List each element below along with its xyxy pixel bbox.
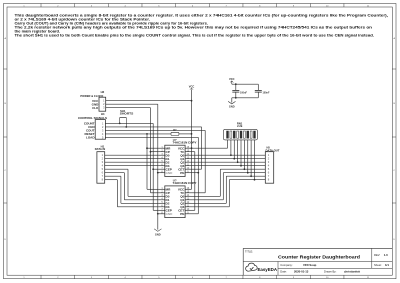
wire LOAD vertical to PE pins xyxy=(197,137,199,213)
wire to U1 CP xyxy=(151,151,159,153)
wire CEN (H4 pin2) xyxy=(105,126,201,128)
wire VCC vertical xyxy=(191,101,193,190)
wire COUNT vertical to CEP pins xyxy=(152,123,154,210)
title block xyxy=(243,247,392,249)
svg-text:VCC: VCC xyxy=(229,77,235,81)
svg-text:VCC: VCC xyxy=(189,84,195,88)
wire xyxy=(147,188,158,190)
wire COUNT (H4 pin1) xyxy=(105,122,153,124)
svg-text:TITLE:: TITLE: xyxy=(245,250,253,254)
resistor R? pull-up xyxy=(171,132,179,135)
wires U2 Q0-Q3 risers to H5 xyxy=(192,195,221,197)
svg-text:74HC161N COPY: 74HC161N COPY xyxy=(173,141,197,145)
wire to U2 CP xyxy=(151,192,159,194)
svg-text:VFD Soup: VFD Soup xyxy=(303,263,317,267)
wire VCC riser xyxy=(191,90,193,101)
wires U1 Q0-Q3 to H5 xyxy=(192,154,266,156)
capacitor C2 100nF xyxy=(257,84,259,90)
RN1 common pin to VCC rail xyxy=(227,140,229,148)
wire COUT vertical to U2 TC xyxy=(204,130,206,192)
svg-text:Drawn By:: Drawn By: xyxy=(324,270,337,274)
svg-text:SHORTS: SHORTS xyxy=(120,112,134,116)
wire CLK from H2 xyxy=(106,107,151,109)
svg-text:GND: GND xyxy=(155,232,161,236)
svg-text:R?: R? xyxy=(173,129,177,132)
wire xyxy=(153,209,158,211)
svg-text:100nF: 100nF xyxy=(263,91,270,94)
svg-text:EasyEDA: EasyEDA xyxy=(258,267,278,272)
svg-text:Counter Register Daughterboard: Counter Register Daughterboard xyxy=(278,255,360,260)
svg-text:REV:: REV: xyxy=(374,253,380,257)
svg-text:christianlott: christianlott xyxy=(344,270,360,274)
wire LOAD (H4 pin5) xyxy=(105,136,198,138)
svg-text:LOAD: LOAD xyxy=(86,136,95,140)
wire xyxy=(192,168,202,170)
wire CEN vertical to U1 CET xyxy=(201,127,203,169)
svg-text:GND: GND xyxy=(166,212,174,216)
svg-text:The short SH1 is used to tie b: The short SH1 is used to tie both Count … xyxy=(15,32,375,37)
svg-text:2020-01-13: 2020-01-13 xyxy=(294,270,309,274)
svg-text:GND: GND xyxy=(229,104,235,108)
wire GND from H2 xyxy=(106,103,158,105)
RN1 pins to data-out bus xyxy=(230,140,232,155)
svg-text:Date:: Date: xyxy=(280,270,287,274)
wire xyxy=(231,81,233,84)
border row ticks left/right xyxy=(4,68,8,70)
svg-text:The 2.2k resistor network pull: The 2.2k resistor network pulls any high… xyxy=(15,24,373,29)
svg-text:Sheet:: Sheet: xyxy=(374,263,382,267)
capacitor C1 100nF xyxy=(235,84,237,90)
svg-text:1.0: 1.0 xyxy=(384,253,388,257)
svg-text:CONTROL SIGNALS: CONTROL SIGNALS xyxy=(78,116,107,120)
wire RESET vertical to MR pins xyxy=(146,134,148,189)
wire xyxy=(192,213,199,215)
wires H1 pins 5-8 to U2 D0-D3 (stair) xyxy=(105,168,128,170)
wire xyxy=(157,172,160,174)
EasyEDA logo xyxy=(246,263,258,271)
wire VCC from H2 xyxy=(106,100,192,102)
wire to U2 VCC xyxy=(191,188,193,190)
svg-text:2.2k: 2.2k xyxy=(237,124,243,128)
wire xyxy=(147,147,158,149)
wire TC1 to CET2 xyxy=(192,151,195,153)
wire xyxy=(192,147,228,149)
ground (caps) xyxy=(232,97,236,99)
svg-text:100nF: 100nF xyxy=(240,91,247,94)
svg-text:1/1: 1/1 xyxy=(385,263,389,267)
wire xyxy=(157,213,160,215)
ground (main) xyxy=(154,229,161,232)
wire GND vertical xyxy=(157,104,159,229)
svg-text:PE: PE xyxy=(180,171,184,175)
svg-text:74HC161N COPY: 74HC161N COPY xyxy=(173,181,197,185)
wire COUT (H4 pin3) xyxy=(105,129,205,131)
wire xyxy=(153,168,158,170)
wire xyxy=(192,192,206,194)
svg-text:CLK: CLK xyxy=(92,106,99,110)
wire CLK vertical xyxy=(150,108,152,193)
svg-text:DATA IN: DATA IN xyxy=(95,147,106,151)
wire xyxy=(192,172,199,174)
wire xyxy=(236,97,258,99)
svg-text:PE: PE xyxy=(180,212,184,216)
svg-text:GND: GND xyxy=(166,171,174,175)
wire xyxy=(236,83,258,85)
svg-text:Company:: Company: xyxy=(280,263,293,267)
border column ticks top/bottom xyxy=(40,4,42,8)
wire RESET (H4 pin4) with pull-up xyxy=(105,133,171,135)
wires H1 pins 1-4 to U1 D0-D3 xyxy=(105,154,159,156)
